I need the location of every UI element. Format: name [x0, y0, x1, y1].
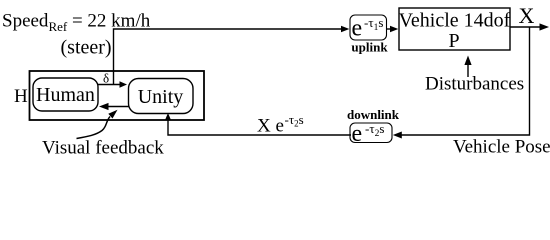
block uplink delay — [350, 15, 387, 40]
wire visual feedback: Unity to Human — [108, 106, 129, 108]
svg-text:Human: Human — [36, 84, 95, 106]
svg-text:Unity: Unity — [138, 86, 184, 108]
svg-text:downlink: downlink — [347, 107, 400, 122]
H-box: human-in-the-loop boundary — [30, 71, 205, 120]
svg-text:Disturbances: Disturbances — [425, 74, 524, 95]
arrowhead into vehicle block — [390, 26, 398, 33]
annotation squiggle arrow for visual feedback — [77, 117, 111, 139]
svg-text:Visual feedback: Visual feedback — [42, 138, 164, 158]
svg-text:(steer): (steer) — [61, 37, 112, 59]
block Vehicle 14dof P — [399, 8, 510, 50]
block Human — [33, 78, 98, 111]
block downlink delay — [350, 123, 392, 143]
svg-text:X: X — [519, 3, 535, 28]
arrowhead of squiggle — [108, 110, 117, 119]
wire steer: junction up and right to uplink block — [114, 29, 342, 85]
svg-text:uplink: uplink — [351, 40, 388, 55]
arrowhead X output — [540, 23, 550, 30]
block Unity — [129, 79, 194, 114]
svg-text:Vehicle Pose: Vehicle Pose — [453, 137, 550, 158]
wire downlink to Unity — [168, 118, 351, 135]
svg-text:Vehicle 14dof: Vehicle 14dof — [399, 10, 511, 32]
wire disturbances into vehicle — [467, 64, 469, 78]
wire vehicle pose: branch down and left to downlink block — [401, 27, 530, 135]
svg-text:P: P — [448, 30, 459, 52]
svg-text:-τ1s: -τ1s — [364, 15, 383, 33]
svg-text:-τ2s: -τ2s — [365, 121, 384, 139]
arrowhead into downlink block — [393, 132, 402, 139]
svg-text:-τ2s: -τ2s — [285, 112, 304, 129]
svg-text:X e: X e — [257, 116, 284, 137]
svg-text:e: e — [352, 16, 363, 42]
wire X output — [510, 26, 541, 28]
wire uplink to vehicle — [387, 28, 391, 30]
svg-text:SpeedRef = 22 km/h: SpeedRef = 22 km/h — [2, 11, 151, 35]
svg-text:H: H — [14, 86, 28, 107]
arrowhead into uplink block — [341, 26, 349, 32]
arrowhead into Unity — [120, 81, 128, 87]
svg-text:δ: δ — [103, 71, 109, 86]
arrowhead disturbances — [464, 56, 471, 66]
wire delta: Human to Unity — [98, 84, 121, 86]
arrowhead into Human — [99, 103, 109, 110]
arrowhead into Unity bottom — [165, 113, 171, 121]
svg-text:e: e — [352, 121, 363, 147]
